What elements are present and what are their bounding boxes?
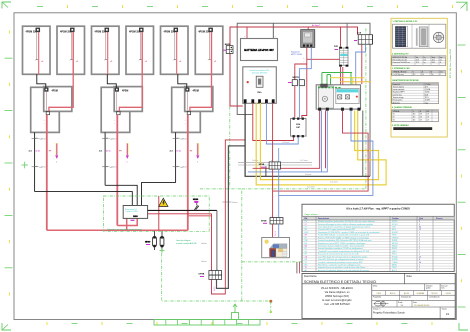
svg-text:Inverter fotovoltaico monofase: Inverter fotovoltaico monofase 2,5 kW co… [318, 247, 363, 250]
north / reference marker on scale bar [232, 304, 239, 320]
title block: address cell [321, 284, 372, 319]
zone boundary: right riser (dash-dot) [365, 28, 367, 189]
svg-text:LFP200: LFP200 [392, 237, 398, 239]
svg-text:3. STRINGHE E CAVI: 3. STRINGHE E CAVI [392, 67, 410, 70]
title block: drawing number row [373, 307, 450, 319]
ruler ticks left edge [5, 31, 13, 296]
zone boundary: DC combiner enclosure (dash-dot) [103, 196, 209, 231]
svg-text:80: 80 [419, 227, 421, 229]
svg-text:9: 9 [419, 221, 420, 223]
wire: inverter gray PE down [362, 111, 364, 177]
svg-text:113: 113 [413, 74, 416, 76]
corner bracket bottom-left [2, 323, 11, 330]
svg-text:3x 6mm²: 3x 6mm² [305, 173, 312, 176]
svg-text:Inverter/caricabatterie XW+ Sc: Inverter/caricabatterie XW+ Schneider 48… [318, 239, 371, 242]
PV module PV2C (second row, front) [114, 87, 142, 125]
svg-text:2x 1,5mm²: 2x 1,5mm² [300, 159, 308, 162]
svg-text:+: + [271, 216, 272, 218]
panel side view [416, 27, 428, 47]
svg-text:SB250: SB250 [392, 246, 397, 248]
svg-text:8,2: 8,2 [440, 59, 442, 61]
svg-text:MC4: MC4 [392, 229, 396, 231]
PV module PV1C (second row, front) [44, 87, 72, 125]
svg-text:Scala:: Scala: [398, 302, 403, 304]
svg-text:18,3: 18,3 [416, 62, 419, 64]
wire: breaker to XW blue [266, 103, 298, 144]
wire: red top bus [230, 27, 358, 106]
svg-text:30,5: 30,5 [432, 59, 435, 61]
svg-text:25: 25 [419, 256, 421, 258]
svg-text:ACB: ACB [357, 31, 362, 34]
PV module PV3 [92, 26, 120, 74]
wire: AC line to UPS (gray) from XW area [217, 146, 245, 289]
svg-text:1: 1 [419, 270, 420, 272]
wire: SPSB down to meter block blue [278, 169, 280, 217]
svg-text:Dimensioni 1640x992 mm: Dimensioni 1640x992 mm [393, 62, 411, 64]
svg-text:SPSB: SPSB [259, 164, 265, 166]
zone boundary: riser and top run (dash-dot) [241, 189, 243, 301]
wire: meter to house red [272, 224, 274, 238]
svg-text:Via Dante Alighieri, sn: Via Dante Alighieri, sn [325, 290, 350, 294]
svg-text:Tavola:: Tavola: [442, 309, 448, 311]
wire: stubs into SPSB from above [265, 166, 267, 176]
svg-text:8,9: 8,9 [422, 74, 424, 76]
svg-text:S2: S2 [393, 117, 395, 119]
wire: red drop to UPS block [211, 214, 213, 271]
svg-text:V: V [413, 111, 414, 113]
battery box BATTERIA LiFePO4 48V [241, 39, 278, 61]
wire: house feed red [273, 111, 369, 192]
svg-text:4x6mm²: 4x6mm² [41, 137, 48, 140]
title block: descrizione cell [302, 273, 455, 283]
svg-text:SPSB: SPSB [261, 221, 267, 223]
zone boundary: vertical near battery feeder (dash-dot) [229, 88, 231, 189]
svg-text:113 V: 113 V [425, 97, 429, 99]
svg-text:30: 30 [419, 262, 421, 264]
wire: gray top bus [237, 23, 370, 176]
svg-text:Codice: Codice [392, 218, 400, 220]
svg-text:Scaricatori di sovratensione t: Scaricatori di sovratensione tipo 2 per … [318, 253, 360, 256]
wire: XW red 2 to bundle [272, 103, 274, 162]
svg-text:0,9: 0,9 [427, 114, 429, 116]
corner bracket bottom-right (ruler end) [459, 323, 468, 330]
svg-text:4PSM: 4PSM [193, 90, 199, 93]
svg-text:1: 1 [419, 237, 420, 239]
zone endpoint dot [269, 300, 272, 303]
wire: string 1 positive descending [46, 115, 48, 231]
svg-text:Quadro AC con protezioni magne: Quadro AC con protezioni magnetotermiche… [318, 250, 370, 253]
wire: FVB up to red bus [340, 27, 342, 47]
wire: MPPT blue down to breaker [299, 47, 311, 79]
dimension arrow string 2 [126, 143, 129, 164]
wire: MPPT red down to breaker [302, 47, 307, 117]
svg-text:4x6mm²: 4x6mm² [182, 166, 189, 169]
wire: string 1 negative descending [34, 132, 36, 191]
graphic scale bar [154, 320, 260, 326]
svg-text:Canalina e tubazioni di protez: Canalina e tubazioni di protezione cavi … [318, 261, 363, 264]
svg-text:4PSM: 4PSM [122, 90, 128, 93]
svg-text:6: 6 [419, 259, 420, 261]
svg-text:UPSB: UPSB [199, 274, 205, 276]
svg-text:1:5: 1:5 [401, 305, 404, 307]
svg-text:−: − [276, 216, 277, 218]
svg-text:Imp: Imp [440, 57, 443, 59]
svg-text:Cavo FG7 3x2,5 mm² per linea u: Cavo FG7 3x2,5 mm² per linea utenze e co… [318, 255, 367, 258]
svg-text:2. DATI MODULI FV: 2. DATI MODULI FV [392, 52, 409, 55]
wire: red riser to bus at fuse area [158, 196, 160, 230]
svg-text:MPPTB: MPPTB [293, 77, 300, 79]
svg-text:QAC1: QAC1 [392, 250, 397, 253]
svg-text:Vmp: Vmp [432, 57, 435, 59]
svg-text:1: 1 [419, 251, 420, 253]
PV module PV5 [161, 26, 189, 74]
spec table C [392, 83, 439, 105]
corner bracket top-right [456, 2, 467, 11]
svg-text:1: 1 [419, 246, 420, 248]
svg-text:EGS32: EGS32 [392, 232, 398, 234]
svg-text:Kit a Isola 2,7 kW Plus - reg.: Kit a Isola 2,7 kW Plus - reg. MPPT e qu… [346, 206, 410, 210]
cable continuation marks string 3 [173, 137, 189, 168]
svg-text:1: 1 [419, 232, 420, 234]
parts list rows [302, 220, 454, 272]
svg-text:VILLA SONCIN - MILESCU: VILLA SONCIN - MILESCU [321, 286, 353, 290]
svg-text:NH25: NH25 [392, 235, 397, 237]
detail sheet (yellow box) [391, 18, 447, 137]
PV module PV3B (second row, rear) [172, 87, 201, 132]
svg-text:3x 2,5mm²: 3x 2,5mm² [330, 180, 338, 183]
svg-text:Connettori MC4 coppia maschio/: Connettori MC4 coppia maschio/femmina IP… [318, 228, 355, 231]
svg-text:FV250: FV250 [392, 221, 397, 223]
wire: string 2 negative descending [104, 132, 106, 185]
svg-text:CS6: CS6 [392, 227, 396, 229]
fuse holder block FVB (string fuse ladder) [334, 46, 348, 67]
ruler ticks right edge [458, 45, 466, 307]
wire: string 1 panelB positive down into row2 panel [49, 32, 73, 111]
PV grid inverter box [316, 84, 360, 111]
wire: thin gray control [238, 162, 312, 164]
svg-text:−: − [277, 160, 278, 162]
DC combiner / sezionatore box EGS [123, 206, 147, 219]
wire: AC line to UPS (red) from XW area [212, 140, 245, 294]
svg-text:28060 Sozzago (NO): 28060 Sozzago (NO) [325, 294, 349, 298]
svg-text:4x6mm²: 4x6mm² [182, 137, 189, 140]
svg-text:−: − [35, 60, 36, 62]
cable continuation marks string 1 [32, 137, 48, 168]
svg-text:5. NOTE GENERALI: 5. NOTE GENERALI [392, 124, 409, 127]
svg-text:+: + [271, 160, 272, 162]
svg-text:E-mail: iut.soncin@virgilio: E-mail: iut.soncin@virgilio [322, 298, 352, 302]
terminal block house meter [261, 216, 283, 225]
svg-text:2 gg: 2 gg [425, 102, 428, 104]
svg-text:2: 2 [419, 254, 420, 256]
svg-text:Capo: elenco: Capo: elenco [305, 214, 319, 216]
note: linea da collegare [176, 240, 197, 245]
zone boundary: outdoor/indoor path (dash-dot) [162, 247, 271, 301]
svg-text:EGS: EGS [133, 216, 138, 218]
svg-text:Struttura di fissaggio su tett: Struttura di fissaggio su tetto a falda … [318, 223, 373, 226]
wire: inverter dc reds to bundle [253, 111, 320, 169]
svg-text:−: − [69, 60, 70, 62]
wire gauge labels on runs [282, 141, 338, 188]
svg-text:V: V [413, 72, 414, 74]
svg-text:8,9: 8,9 [420, 114, 422, 116]
wire: bus drop to MPPT [307, 27, 309, 30]
svg-text:KIT 2,7 kW - Rev. Gennaio 2: KIT 2,7 kW - Rev. Gennaio 2018 [450, 48, 452, 78]
wire: MPPT to FVB red link [307, 58, 340, 60]
svg-text:8,9: 8,9 [424, 59, 426, 61]
svg-text:4x6mm²: 4x6mm² [41, 166, 48, 169]
svg-text:A50.04: A50.04 [390, 292, 395, 295]
wire: string1 positive collector [47, 229, 127, 231]
PV module PV4 [126, 26, 154, 74]
svg-text:113: 113 [413, 117, 416, 119]
svg-text:Impianto di terra con picchett: Impianto di terra con picchetto e corda … [318, 266, 366, 269]
svg-text:Controllato da:: Controllato da: [429, 296, 441, 299]
wire: string3 negative to combiner [142, 183, 176, 206]
wire: battery negative drop [272, 23, 274, 38]
svg-text:MRS1: MRS1 [392, 264, 397, 266]
ruler ticks top edge [37, 5, 453, 8]
svg-text:Ditta:: Ditta: [373, 285, 378, 288]
wire: fuses to battery breaker [294, 86, 296, 118]
spec table A [392, 56, 446, 66]
svg-text:1. DETTAGLIO MODULO FV: 1. DETTAGLIO MODULO FV [393, 20, 418, 23]
svg-text:NH00: NH00 [145, 242, 151, 244]
svg-text:3x 2,5: 3x 2,5 [275, 231, 277, 236]
svg-text:S3: S3 [393, 119, 395, 121]
svg-text:Disegn. n:: Disegn. n: [373, 309, 381, 311]
svg-text:Voc: Voc [416, 57, 419, 59]
dark note bar [393, 127, 432, 130]
inverter/charger XW+ box [243, 67, 276, 104]
svg-text:1: 1 [419, 248, 420, 250]
svg-text:Cell. +39 335 8475222: Cell. +39 335 8475222 [324, 302, 350, 306]
fuse F2 (NH00 cartridge) [160, 231, 164, 250]
svg-text:TUB20: TUB20 [392, 262, 398, 264]
svg-text:8,9: 8,9 [420, 119, 422, 121]
zone boundary: long horizontal (dash-dot) [242, 188, 366, 190]
label tick under combiner [131, 219, 135, 221]
svg-text:Progetto Fotovoltaico Soncin: Progetto Fotovoltaico Soncin [373, 312, 406, 315]
svg-text:10 kWh: 10 kWh [425, 100, 430, 102]
terminal block UPSB [199, 269, 222, 280]
wire: XW black down then across [245, 103, 370, 176]
svg-text:Sezionatore batteria 250A con: Sezionatore batteria 250A con fusibile e… [318, 245, 364, 248]
svg-text:0,9: 0,9 [427, 119, 429, 121]
svg-text:1/1: 1/1 [446, 312, 450, 316]
wire: ACB drops [361, 44, 363, 84]
wire gauge label row string 1 [29, 149, 53, 152]
svg-text:FVB: FVB [334, 46, 338, 48]
svg-text:8,9: 8,9 [420, 117, 422, 119]
wire: AC yellow loop 1 [260, 103, 378, 180]
svg-text:2x 6mm²: 2x 6mm² [252, 159, 259, 162]
svg-text:4x6mm²: 4x6mm² [111, 137, 118, 140]
svg-text:0,9: 0,9 [427, 117, 429, 119]
wire: string 2 jumper panelA to row2 [107, 74, 116, 87]
cable continuation marks string 2 [102, 137, 118, 168]
svg-text:MPPT 150/60: MPPT 150/60 [291, 54, 302, 56]
PV module PV1 [23, 26, 51, 74]
svg-text:70800: 70800 [376, 293, 381, 295]
wire: drop to UPS terminal [216, 210, 218, 270]
svg-text:Cavo solare 6 mm² rosso/nero c: Cavo solare 6 mm² rosso/nero con doppio … [318, 226, 370, 229]
wire: string 3 jumper panelA to row2 [178, 74, 187, 87]
svg-text:2,7 kWp: 2,7 kWp [425, 84, 431, 86]
wire: thin gray control 2 [238, 164, 312, 166]
svg-text:A9.014: A9.014 [404, 292, 409, 295]
terminal block ACB [354, 31, 373, 44]
svg-text:−: − [138, 60, 139, 62]
svg-text:Progettista:: Progettista: [373, 296, 382, 299]
svg-text:12: 12 [419, 229, 421, 231]
svg-text:Modulo fotovoltaico policrista: Modulo fotovoltaico policristallino 250 … [318, 220, 375, 223]
parts list table [302, 204, 454, 271]
svg-text:150/60: 150/60 [425, 92, 430, 94]
svg-text:+ quadro COMSI: + quadro COMSI [125, 210, 138, 213]
spec table B [392, 70, 446, 76]
wire: AC yellow loop 2 [256, 103, 386, 185]
wire: inverter dc blue2 to bundle [321, 111, 323, 172]
title block outer [302, 273, 455, 318]
wire: string3 positive to DC switch [188, 215, 212, 217]
svg-text:4PSM: 4PSM [52, 90, 58, 93]
wire: stub red near table [299, 262, 301, 273]
svg-text:FG735: FG735 [392, 259, 398, 261]
svg-text:250A: 250A [296, 123, 301, 126]
svg-text:Note:: Note: [407, 275, 413, 278]
svg-text:37,8: 37,8 [416, 59, 419, 61]
wire: string1 positive to combiner [127, 218, 188, 230]
wire: FVB down to PV inverter [340, 67, 342, 87]
svg-text:Isc: Isc [424, 57, 426, 59]
wire: string 1 jumper panelA to row2 [37, 74, 46, 87]
svg-text:Descrizione: Descrizione [318, 218, 330, 220]
wire: house feed blue [279, 111, 373, 196]
svg-text:2x 35mm²: 2x 35mm² [282, 141, 290, 144]
svg-text:IP65: IP65 [432, 62, 435, 64]
cable continuation mark on UPS feed pair [222, 201, 231, 203]
PV module PV1B (second row, rear) [31, 87, 60, 132]
wire: string 3 negative descending [175, 132, 177, 182]
AC yellow jumpers above inverter [330, 78, 371, 87]
wire: string 3 panelB positive down into row2 panel [190, 32, 212, 111]
svg-text:TER1: TER1 [392, 267, 397, 269]
wire: DC bus combiner to drop point (black) [148, 209, 217, 211]
title block: roles row [372, 295, 455, 300]
svg-text:1: 1 [419, 243, 420, 245]
svg-text:3x 2,5mm²: 3x 2,5mm² [307, 186, 315, 189]
battery breaker box BAT [291, 118, 307, 138]
title block: ditta row [372, 284, 455, 291]
zone boundary: stub under house (dash-dot) [242, 261, 308, 263]
terminal block BATB on feeder [223, 43, 233, 54]
svg-text:1: 1 [419, 240, 420, 242]
svg-text:SPD2: SPD2 [392, 254, 397, 256]
svg-text:Data:: Data: [413, 301, 418, 304]
svg-text:BATB: BATB [225, 43, 231, 46]
svg-text:−: − [104, 60, 105, 62]
wire: FVB2 up to gray bus [346, 23, 348, 47]
panel front view (cell grid) [396, 27, 409, 47]
snap marker cross left [22, 164, 29, 166]
house / utenze icon [262, 238, 290, 258]
svg-text:3x2,5: 3x2,5 [214, 287, 216, 291]
svg-text:6: 6 [440, 74, 441, 76]
wire: DC bus red companion [148, 213, 212, 215]
svg-text:SCHEMA ELETTRICO E DETTAGLI TE: SCHEMA ELETTRICO E DETTAGLI TECNICI [304, 280, 376, 284]
svg-text:113: 113 [413, 119, 416, 121]
svg-text:−: − [173, 60, 174, 62]
svg-text:Rif.: Rif. [305, 218, 309, 220]
fuse F1 (NH00 cartridge) [153, 231, 157, 250]
svg-text:Linea da collegare: Linea da collegare [176, 240, 191, 242]
svg-text:XW48: XW48 [392, 240, 397, 242]
svg-text:kg: kg [424, 62, 426, 64]
PE green bus above inverter [322, 73, 352, 87]
svg-text:N.MAPAB: N.MAPAB [417, 292, 425, 295]
svg-text:Regolatore di carica MPPT 150/: Regolatore di carica MPPT 150/60 con dis… [318, 242, 366, 245]
svg-text:Disegnato da:: Disegnato da: [401, 296, 412, 299]
wire: string1 negative to combiner [35, 192, 133, 206]
svg-text:2: 2 [419, 235, 420, 237]
svg-text:Schneider 48V 230V: Schneider 48V 230V [252, 71, 268, 74]
wire: breaker to XW red [253, 103, 294, 141]
svg-text:−: − [208, 60, 209, 62]
wire: inverter dc blue to bundle [248, 111, 327, 172]
svg-text:750: 750 [431, 74, 434, 76]
svg-text:Batteria LiFePO4 48V 200Ah con: Batteria LiFePO4 48V 200Ah con BMS integ… [318, 236, 369, 239]
dimension arrow string 3 [197, 143, 200, 164]
svg-text:Sezionatore DC 32A 1000V + qua: Sezionatore DC 32A 1000V + quadro COMSI … [318, 231, 380, 234]
title block: scale/date row [372, 300, 455, 307]
svg-text:Dispositivo con interruttore m: Dispositivo con interruttore magnetoterm… [107, 228, 142, 231]
wire: stub gray near table [296, 262, 298, 273]
wire: string 2 panelB positive down into row2 panel [119, 32, 142, 111]
wire: FVB2 down to PV inverter [342, 67, 344, 87]
svg-text:3: 3 [419, 224, 420, 226]
wire: meter to house blue [278, 224, 280, 238]
wire gauge label row string 2 [99, 149, 123, 152]
svg-text:48 V: 48 V [425, 86, 428, 88]
wire: battery positive drop [246, 27, 248, 39]
svg-text:Descrizione:: Descrizione: [304, 275, 317, 278]
svg-text:a monte contator ACE 2A: a monte contator ACE 2A [176, 242, 197, 245]
PV module PV2 [57, 26, 85, 74]
PV module PV6 [195, 26, 223, 74]
svg-text:4. QUADRO STRINGHE: 4. QUADRO STRINGHE [392, 106, 413, 109]
MPPT charge controller box [301, 30, 315, 48]
svg-text:1: 1 [419, 264, 420, 266]
spec table D [392, 110, 439, 122]
svg-text:Prezzo: Prezzo [436, 218, 443, 220]
svg-text:FG725: FG725 [392, 256, 398, 258]
switch NH00 (blade) [193, 199, 200, 211]
title block: codes row [372, 291, 455, 296]
svg-text:form.:: form.: [441, 287, 446, 289]
ruler ticks bottom edge [47, 322, 432, 325]
warning triangle (electric hazard) [159, 198, 168, 206]
corner bracket top-left [2, 2, 11, 9]
mounting detail circle [433, 32, 443, 42]
svg-text:INV25: INV25 [392, 248, 397, 250]
dimension arrow string 1 [56, 143, 59, 164]
PV module PV3C (second row, front) [185, 87, 213, 125]
junction cross at fuse output [160, 249, 165, 251]
svg-text:113: 113 [413, 114, 416, 116]
wire: SPSB down to meter block red [272, 169, 274, 217]
svg-text:Cavo FG7 2x35 mm² per collegam: Cavo FG7 2x35 mm² per collegamento batte… [318, 258, 364, 261]
